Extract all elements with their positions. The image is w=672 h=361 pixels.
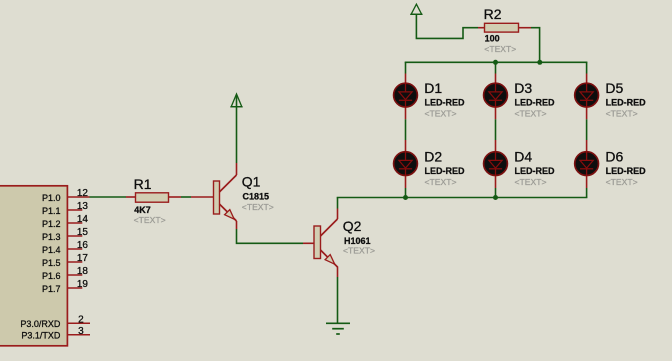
svg-text:13: 13	[77, 201, 89, 212]
svg-text:C1815: C1815	[243, 191, 270, 201]
svg-text:18: 18	[77, 266, 89, 277]
svg-text:<TEXT>: <TEXT>	[425, 109, 457, 119]
svg-text:<TEXT>: <TEXT>	[515, 109, 547, 119]
svg-text:P1.6: P1.6	[42, 271, 61, 281]
svg-text:LED-RED: LED-RED	[425, 97, 465, 107]
svg-text:LED-RED: LED-RED	[425, 166, 465, 176]
svg-text:LED-RED: LED-RED	[515, 97, 555, 107]
svg-text:17: 17	[77, 253, 89, 264]
svg-text:H1061: H1061	[344, 236, 371, 246]
svg-text:LED-RED: LED-RED	[515, 166, 555, 176]
svg-text:D6: D6	[605, 149, 623, 165]
svg-text:D1: D1	[424, 80, 442, 96]
svg-text:<TEXT>: <TEXT>	[484, 44, 516, 54]
svg-text:D5: D5	[605, 80, 623, 96]
svg-text:<TEXT>: <TEXT>	[134, 215, 166, 225]
svg-text:19: 19	[77, 279, 89, 290]
svg-text:<TEXT>: <TEXT>	[515, 177, 547, 187]
svg-text:<TEXT>: <TEXT>	[343, 246, 375, 256]
svg-text:P3.1/TXD: P3.1/TXD	[21, 330, 61, 340]
svg-text:D4: D4	[514, 149, 532, 165]
svg-text:LED-RED: LED-RED	[606, 97, 646, 107]
svg-text:Q1: Q1	[242, 174, 261, 190]
svg-text:P1.3: P1.3	[42, 232, 61, 242]
svg-text:100: 100	[485, 34, 500, 44]
svg-text:LED-RED: LED-RED	[606, 166, 646, 176]
svg-text:3: 3	[78, 326, 84, 337]
svg-text:15: 15	[77, 227, 89, 238]
svg-text:D2: D2	[424, 149, 442, 165]
svg-text:2: 2	[78, 315, 84, 326]
svg-text:Q2: Q2	[343, 218, 362, 234]
svg-text:12: 12	[77, 188, 89, 199]
svg-text:<TEXT>: <TEXT>	[606, 109, 638, 119]
svg-text:D3: D3	[514, 80, 532, 96]
svg-text:P1.1: P1.1	[42, 206, 61, 216]
svg-text:14: 14	[77, 214, 89, 225]
svg-text:P1.7: P1.7	[42, 284, 61, 294]
svg-text:R2: R2	[484, 6, 502, 22]
svg-text:4K7: 4K7	[134, 205, 151, 215]
svg-text:P1.5: P1.5	[42, 258, 61, 268]
svg-text:P1.0: P1.0	[42, 193, 61, 203]
svg-text:P1.4: P1.4	[42, 245, 61, 255]
svg-text:P1.2: P1.2	[42, 219, 61, 229]
svg-text:R1: R1	[134, 176, 152, 192]
svg-text:<TEXT>: <TEXT>	[425, 177, 457, 187]
svg-text:<TEXT>: <TEXT>	[606, 177, 638, 187]
svg-text:<TEXT>: <TEXT>	[242, 202, 274, 212]
svg-text:16: 16	[77, 240, 89, 251]
svg-text:P3.0/RXD: P3.0/RXD	[20, 319, 61, 329]
